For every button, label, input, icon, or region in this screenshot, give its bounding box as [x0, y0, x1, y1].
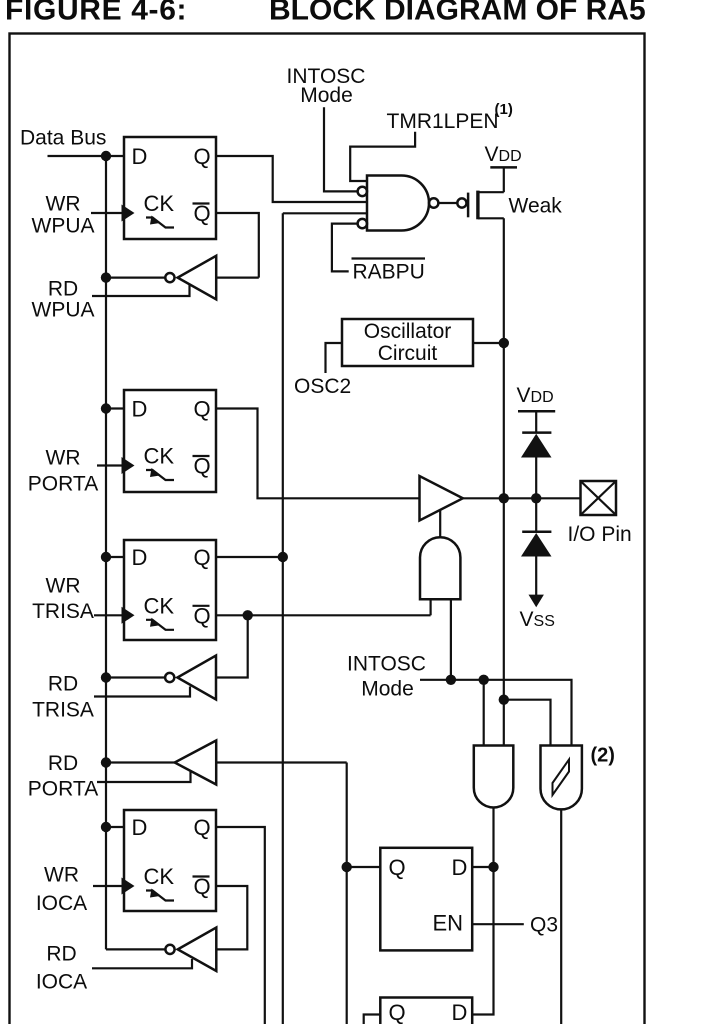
- latch SNAP Q/D with EN: [380, 848, 472, 951]
- junction data bus at RD PORTA: [101, 757, 111, 767]
- svg-text:CK: CK: [144, 593, 175, 618]
- svg-text:Mode: Mode: [300, 84, 353, 107]
- junction data bus at RD TRISA: [101, 672, 111, 682]
- junction TRISA Qbar branch: [243, 610, 253, 620]
- pad I/O Pin box: [581, 481, 617, 515]
- svg-text:WR: WR: [46, 447, 81, 470]
- wire TRISA Q vertical bus to NAND input 3 and bottom: [282, 213, 284, 1024]
- symbol hysteresis inside Schmitt gate: [553, 760, 570, 796]
- svg-text:D: D: [452, 855, 468, 880]
- svg-text:TRISA: TRISA: [32, 600, 94, 623]
- block Oscillator Circuit: [342, 319, 473, 366]
- wire Oscillator Circuit output to pin line: [473, 342, 504, 344]
- wire bottom latch Q output: [364, 1015, 381, 1024]
- junction INTOSC row at AND2 input: [479, 675, 489, 685]
- junction data bus at IOCA D: [101, 822, 111, 832]
- wire IOCA Qbar to RD IOCA inverter: [216, 886, 247, 949]
- buffer output driver: [420, 476, 463, 521]
- wire WPUA Qbar to RD WPUA inverter input: [216, 213, 259, 278]
- svg-text:(2): (2): [591, 745, 615, 767]
- latch IOCA (D/CK/Q/Qbar): [122, 810, 217, 911]
- wire Data Bus horizontal into WPUA latch D: [48, 155, 125, 157]
- junction TRISA Q bus: [278, 552, 288, 562]
- svg-text:D: D: [132, 397, 148, 422]
- svg-text:WR: WR: [46, 193, 81, 216]
- junction clamp diode column at I/O row: [531, 493, 541, 503]
- svg-text:PORTA: PORTA: [28, 778, 98, 801]
- svg-text:RD: RD: [48, 673, 78, 696]
- svg-text:INTOSC: INTOSC: [347, 653, 426, 676]
- wire weak pull-up / pin line vertical main: [503, 218, 505, 745]
- svg-text:PORTA: PORTA: [28, 473, 98, 496]
- latch TRISA (D/CK/Q/Qbar): [122, 540, 217, 640]
- svg-text:RD: RD: [48, 278, 78, 301]
- junction RD PORTA line at EN latch Q: [342, 862, 352, 872]
- wire PORTA D input: [106, 407, 124, 409]
- wire RABPU to NAND input 4: [332, 224, 357, 272]
- wire pin line branch to Schmitt left input: [504, 700, 551, 746]
- svg-text:CK: CK: [144, 864, 175, 889]
- junction pin line at I/O row: [499, 493, 509, 503]
- svg-text:OSC2: OSC2: [294, 375, 351, 398]
- wire TRISA Qbar to AND1 left input: [216, 614, 431, 616]
- junction AND2 output at EN latch D: [488, 862, 498, 872]
- wire driver output to I/O pin: [463, 497, 581, 499]
- wire IOCA Q down to bottom: [216, 827, 265, 1024]
- svg-text:CK: CK: [144, 444, 175, 469]
- wire AND1 right input from INTOSC Mode: [450, 599, 452, 680]
- gate NAND U1 body: [367, 176, 429, 231]
- wire TRISA Qbar down to RD TRISA inverter: [216, 615, 248, 677]
- svg-text:Data Bus: Data Bus: [20, 127, 106, 150]
- diode D1 clamp to VDD: [521, 411, 552, 498]
- svg-text:D: D: [132, 144, 148, 169]
- diode D2 clamp to VSS: [521, 498, 552, 596]
- svg-text:WR: WR: [46, 575, 81, 598]
- svg-text:BLOCK DIAGRAM OF RA5: BLOCK DIAGRAM OF RA5: [269, 0, 646, 27]
- wire NAND input 3 from TRISA Q bus: [283, 212, 367, 214]
- wire TMR1LPEN to NAND top input: [350, 132, 415, 181]
- svg-text:Oscillator: Oscillator: [364, 320, 452, 343]
- svg-text:RD: RD: [46, 943, 76, 966]
- svg-text:VDD: VDD: [485, 143, 522, 166]
- wire AND2 left input from INTOSC row: [483, 680, 485, 746]
- wire AND1 left input from TRISA Qbar: [430, 599, 432, 615]
- svg-text:Weak: Weak: [509, 195, 563, 218]
- svg-text:I/O Pin: I/O Pin: [568, 523, 632, 546]
- svg-text:Circuit: Circuit: [378, 342, 438, 365]
- wire IOCA D input: [106, 826, 124, 828]
- junction oscillator to pin line: [499, 338, 509, 348]
- svg-text:Q3: Q3: [530, 914, 558, 937]
- svg-text:IOCA: IOCA: [36, 971, 87, 994]
- latch PORTA (D/CK/Q/Qbar): [122, 390, 217, 492]
- bubble NAND input 4: [358, 219, 367, 228]
- wire TRISA Q to vertical bus: [216, 556, 283, 558]
- svg-text:EN: EN: [433, 911, 464, 936]
- wire data bus vertical trunk: [105, 156, 107, 949]
- wire EN latch D input: [472, 866, 493, 868]
- gate AND2 (input qualifier): [474, 746, 514, 808]
- ground VSS arrow: [529, 595, 544, 608]
- gate Schmitt trigger buffer (2): [541, 746, 582, 810]
- wire WR TRISA to CK: [94, 614, 122, 616]
- svg-text:D: D: [452, 1000, 468, 1024]
- wire Schmitt output down: [560, 809, 562, 1024]
- svg-text:TRISA: TRISA: [32, 699, 94, 722]
- wire WPUA Q to NAND input 2: [216, 156, 367, 202]
- junction data bus at RD WPUA: [101, 272, 111, 282]
- inverter RD WPUA tri-state: [92, 256, 259, 300]
- junction data bus at WPUA D: [101, 151, 111, 161]
- wire RD PORTA line down to EN latch Q: [346, 763, 348, 1024]
- bubble NAND output: [429, 198, 438, 207]
- power VDD rail (top): [490, 166, 517, 169]
- buffer RD PORTA tri-state: [97, 741, 347, 785]
- svg-text:RD: RD: [48, 752, 78, 775]
- wire OSC2 to Oscillator Circuit: [326, 343, 343, 373]
- wire driver enable from AND1: [439, 510, 441, 538]
- svg-text:WPUA: WPUA: [32, 215, 95, 238]
- svg-text:Q: Q: [194, 815, 211, 840]
- svg-text:Q: Q: [194, 603, 211, 628]
- bubble NAND input 1: [358, 187, 367, 196]
- wire AND2 output down to data latch D inputs: [472, 808, 493, 1015]
- svg-text:Q: Q: [194, 874, 211, 899]
- junction data bus at TRISA D: [101, 552, 111, 562]
- svg-text:VSS: VSS: [520, 608, 555, 631]
- svg-text:VDD: VDD: [517, 384, 554, 407]
- wire INTOSC Mode row to Schmitt right input: [420, 680, 572, 746]
- wire WR WPUA to CK: [91, 212, 122, 214]
- svg-text:D: D: [132, 545, 148, 570]
- wire NAND output to PMOS gate: [438, 202, 457, 204]
- wire TRISA D input: [106, 556, 124, 558]
- junction pin line to Schmitt branch: [499, 695, 509, 705]
- svg-text:Mode: Mode: [361, 678, 414, 701]
- svg-text:WR: WR: [44, 864, 79, 887]
- junction INTOSC row at AND1 input: [446, 675, 456, 685]
- inverter RD TRISA tri-state: [94, 656, 216, 700]
- gate AND1 output enable: [420, 537, 460, 599]
- svg-text:WPUA: WPUA: [32, 299, 95, 322]
- junction data bus at PORTA D: [101, 403, 111, 413]
- wire PORTA Q to output buffer: [216, 409, 420, 499]
- svg-text:Q: Q: [194, 454, 211, 479]
- svg-text:Q: Q: [389, 1000, 406, 1024]
- wire WR PORTA to CK: [97, 464, 122, 466]
- transistor Q1 weak pull-up PMOS: [457, 167, 504, 219]
- svg-text:RABPU: RABPU: [353, 261, 425, 284]
- svg-text:FIGURE 4-6:: FIGURE 4-6:: [5, 0, 187, 27]
- svg-text:D: D: [132, 815, 148, 840]
- inverter RD IOCA tri-state: [92, 928, 216, 972]
- wire WR IOCA to CK: [93, 885, 122, 887]
- svg-text:Q: Q: [194, 201, 211, 226]
- svg-text:Q: Q: [389, 855, 406, 880]
- svg-text:Q: Q: [194, 144, 211, 169]
- svg-text:Q: Q: [194, 397, 211, 422]
- latch WPUA (D/CK/Q/Qbar): [122, 137, 217, 239]
- wire INTOSC Mode to NAND input 1: [324, 107, 357, 191]
- wire EN to Q3: [472, 923, 524, 925]
- svg-text:IOCA: IOCA: [36, 892, 87, 915]
- svg-text:TMR1LPEN: TMR1LPEN: [387, 110, 499, 133]
- svg-text:(1): (1): [495, 101, 513, 118]
- wire EN latch Q output: [347, 866, 381, 868]
- svg-text:Q: Q: [194, 545, 211, 570]
- svg-text:CK: CK: [144, 191, 175, 216]
- latch bottom Q/D (partially visible): [380, 998, 472, 1024]
